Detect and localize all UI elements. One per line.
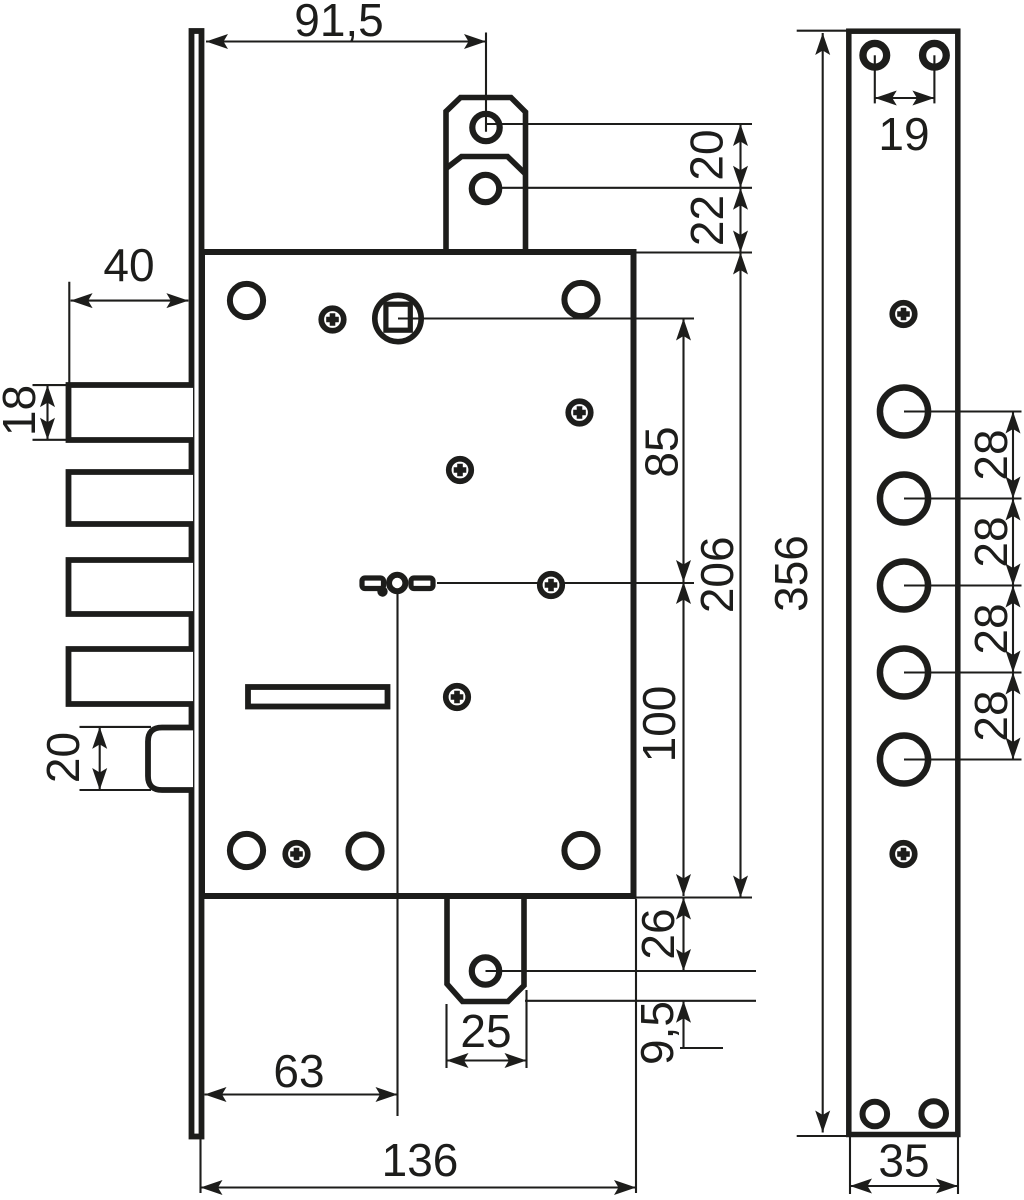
screw hole (right upper, case) <box>568 401 591 424</box>
centre line of strip hole C4 <box>904 671 1022 673</box>
faceplate (front plate of lock, left view) <box>192 31 202 1137</box>
extension line dim 35 left <box>849 1137 851 1194</box>
screw hole (strip, upper) <box>892 303 915 326</box>
bottom-middle case hole <box>348 834 381 867</box>
extension line dim 20 latch bottom <box>80 789 152 791</box>
deadbolt B1 <box>69 385 194 440</box>
centre line of strip hole C1 <box>904 410 1022 412</box>
deadbolt B3 <box>69 560 194 614</box>
strip top mount hole left <box>863 43 887 67</box>
centre line of spindle hole <box>398 317 694 319</box>
dimension line 28 #2 <box>1006 499 1021 586</box>
svg-text:28: 28 <box>965 690 1017 741</box>
svg-text:356: 356 <box>765 535 817 612</box>
latch bolt (rounded) <box>148 728 193 791</box>
svg-text:63: 63 <box>273 1045 324 1097</box>
svg-text:40: 40 <box>103 239 154 291</box>
svg-text:9,5: 9,5 <box>631 1001 683 1065</box>
deadbolt B4 <box>69 649 194 704</box>
key cylinder profile: lower-left lobe <box>377 586 387 596</box>
dimension line 25 <box>447 1053 527 1068</box>
screw hole (slot level, case) <box>446 686 469 709</box>
strip cylinder hole C5 <box>880 735 928 783</box>
strip top mount hole right <box>923 43 947 67</box>
extension line for dim 40 (bolt left edge) <box>68 282 70 385</box>
dimension line 63 <box>205 1087 398 1102</box>
extension line dim 18 bottom <box>33 439 67 441</box>
extension line from dim 91,5 to top tab hole <box>485 33 487 132</box>
dimension line 20 (latch) <box>92 727 107 790</box>
dimension line 136 <box>201 1180 637 1195</box>
svg-text:85: 85 <box>636 426 688 477</box>
extension line dim 20 latch top <box>80 726 152 728</box>
extension of case bottom edge <box>634 896 752 898</box>
tail of dim 9,5 <box>680 1047 723 1049</box>
centre line of strip hole C3 <box>904 584 1022 586</box>
dimension line 206 <box>733 253 748 898</box>
dimension line 35 <box>850 1179 958 1194</box>
extension line dim 356 top <box>797 30 847 32</box>
screw hole (bottom row, case) <box>285 843 308 866</box>
strip cylinder hole C2 <box>880 474 928 522</box>
dimension line 28 #1 <box>1006 412 1021 499</box>
dimension line 22 <box>733 188 748 253</box>
extension line dim 136 right <box>635 899 637 1193</box>
dimension line 28 #4 <box>1006 673 1021 760</box>
top-left case hole <box>230 284 263 317</box>
dimension line 26 <box>676 898 691 972</box>
right view: face strip plate <box>849 31 958 1134</box>
dimension line 85 <box>676 319 691 583</box>
svg-text:18: 18 <box>0 385 45 436</box>
extension line dim 18 top <box>33 384 67 386</box>
svg-text:20: 20 <box>37 732 89 783</box>
extension line dim 25 left <box>445 1004 447 1068</box>
dimension line 19 <box>875 91 935 106</box>
strip bottom mount hole right <box>921 1101 946 1126</box>
extension line dim 356 bottom <box>797 1135 847 1137</box>
extension line dim 25 right <box>525 990 527 1068</box>
extension of case top edge <box>634 251 752 253</box>
dimension line 100 <box>676 582 691 896</box>
top-right case hole <box>564 283 597 316</box>
top tab inner plate edge <box>446 157 526 175</box>
top tab hole 1 <box>472 114 499 141</box>
bottom-left case hole <box>230 834 263 867</box>
top tab hole 2 <box>472 175 499 202</box>
bottom mounting tab outline <box>447 895 524 1002</box>
centre line of strip hole C5 <box>904 758 1022 760</box>
spindle square hole: square <box>386 304 410 330</box>
svg-text:26: 26 <box>632 908 684 959</box>
dimension line 20 (tab holes) <box>733 124 748 188</box>
svg-text:100: 100 <box>633 686 685 763</box>
dimension line 40 <box>71 293 189 308</box>
svg-text:91,5: 91,5 <box>294 0 384 46</box>
strip cylinder hole C1 <box>880 387 928 435</box>
screw hole (strip, lower) <box>892 843 915 866</box>
dimension line 91,5 <box>206 34 486 49</box>
bottom-right case hole <box>564 834 597 867</box>
strip cylinder hole C3 <box>880 561 928 609</box>
screw hole (key level, case) <box>540 574 563 597</box>
extension of bottom tab lower edge <box>525 1000 756 1002</box>
centre line of strip hole C2 <box>904 497 1022 499</box>
extension line dim 35 right <box>957 1137 959 1194</box>
centre line of bottom tab hole <box>486 970 757 972</box>
svg-text:19: 19 <box>878 108 929 160</box>
deadbolt B2 <box>69 472 194 524</box>
strip cylinder hole C4 <box>880 648 928 696</box>
key cylinder profile: centre boss <box>389 575 405 591</box>
extension line dim 19 right hole <box>933 55 935 103</box>
strip bottom mount hole left <box>863 1102 888 1127</box>
centre line of top tab hole 2 <box>500 187 752 189</box>
spindle square hole: circle <box>375 295 421 341</box>
bottom tab hole <box>472 957 499 984</box>
extension line dim 136 left <box>199 1139 201 1193</box>
key cylinder profile: left bit <box>362 578 384 589</box>
svg-text:22: 22 <box>681 195 733 246</box>
key cylinder profile: right bit <box>411 578 433 589</box>
svg-text:25: 25 <box>460 1005 511 1057</box>
lock case body <box>202 252 634 896</box>
svg-text:136: 136 <box>382 1134 459 1186</box>
dimension line 28 #3 <box>1006 586 1021 673</box>
dimension line 356 <box>815 33 830 1133</box>
horizontal slot opening in case <box>248 687 388 707</box>
top mounting tab outline <box>446 98 526 254</box>
svg-text:206: 206 <box>691 536 743 613</box>
svg-text:35: 35 <box>878 1135 929 1187</box>
centre line of top tab hole 1 <box>486 123 752 125</box>
screw hole (upper middle, case) <box>449 459 472 482</box>
vertical centre line through key axis <box>396 589 398 1116</box>
svg-text:20: 20 <box>681 129 733 180</box>
dimension line 18 <box>40 385 55 440</box>
svg-text:28: 28 <box>965 429 1017 480</box>
svg-text:28: 28 <box>965 603 1017 654</box>
svg-text:28: 28 <box>965 516 1017 567</box>
extension line dim 19 left hole <box>874 55 876 103</box>
screw hole (top row, case) <box>321 308 344 331</box>
centre line of key cylinder <box>437 582 694 584</box>
dimension line 9,5 <box>676 1001 691 1048</box>
